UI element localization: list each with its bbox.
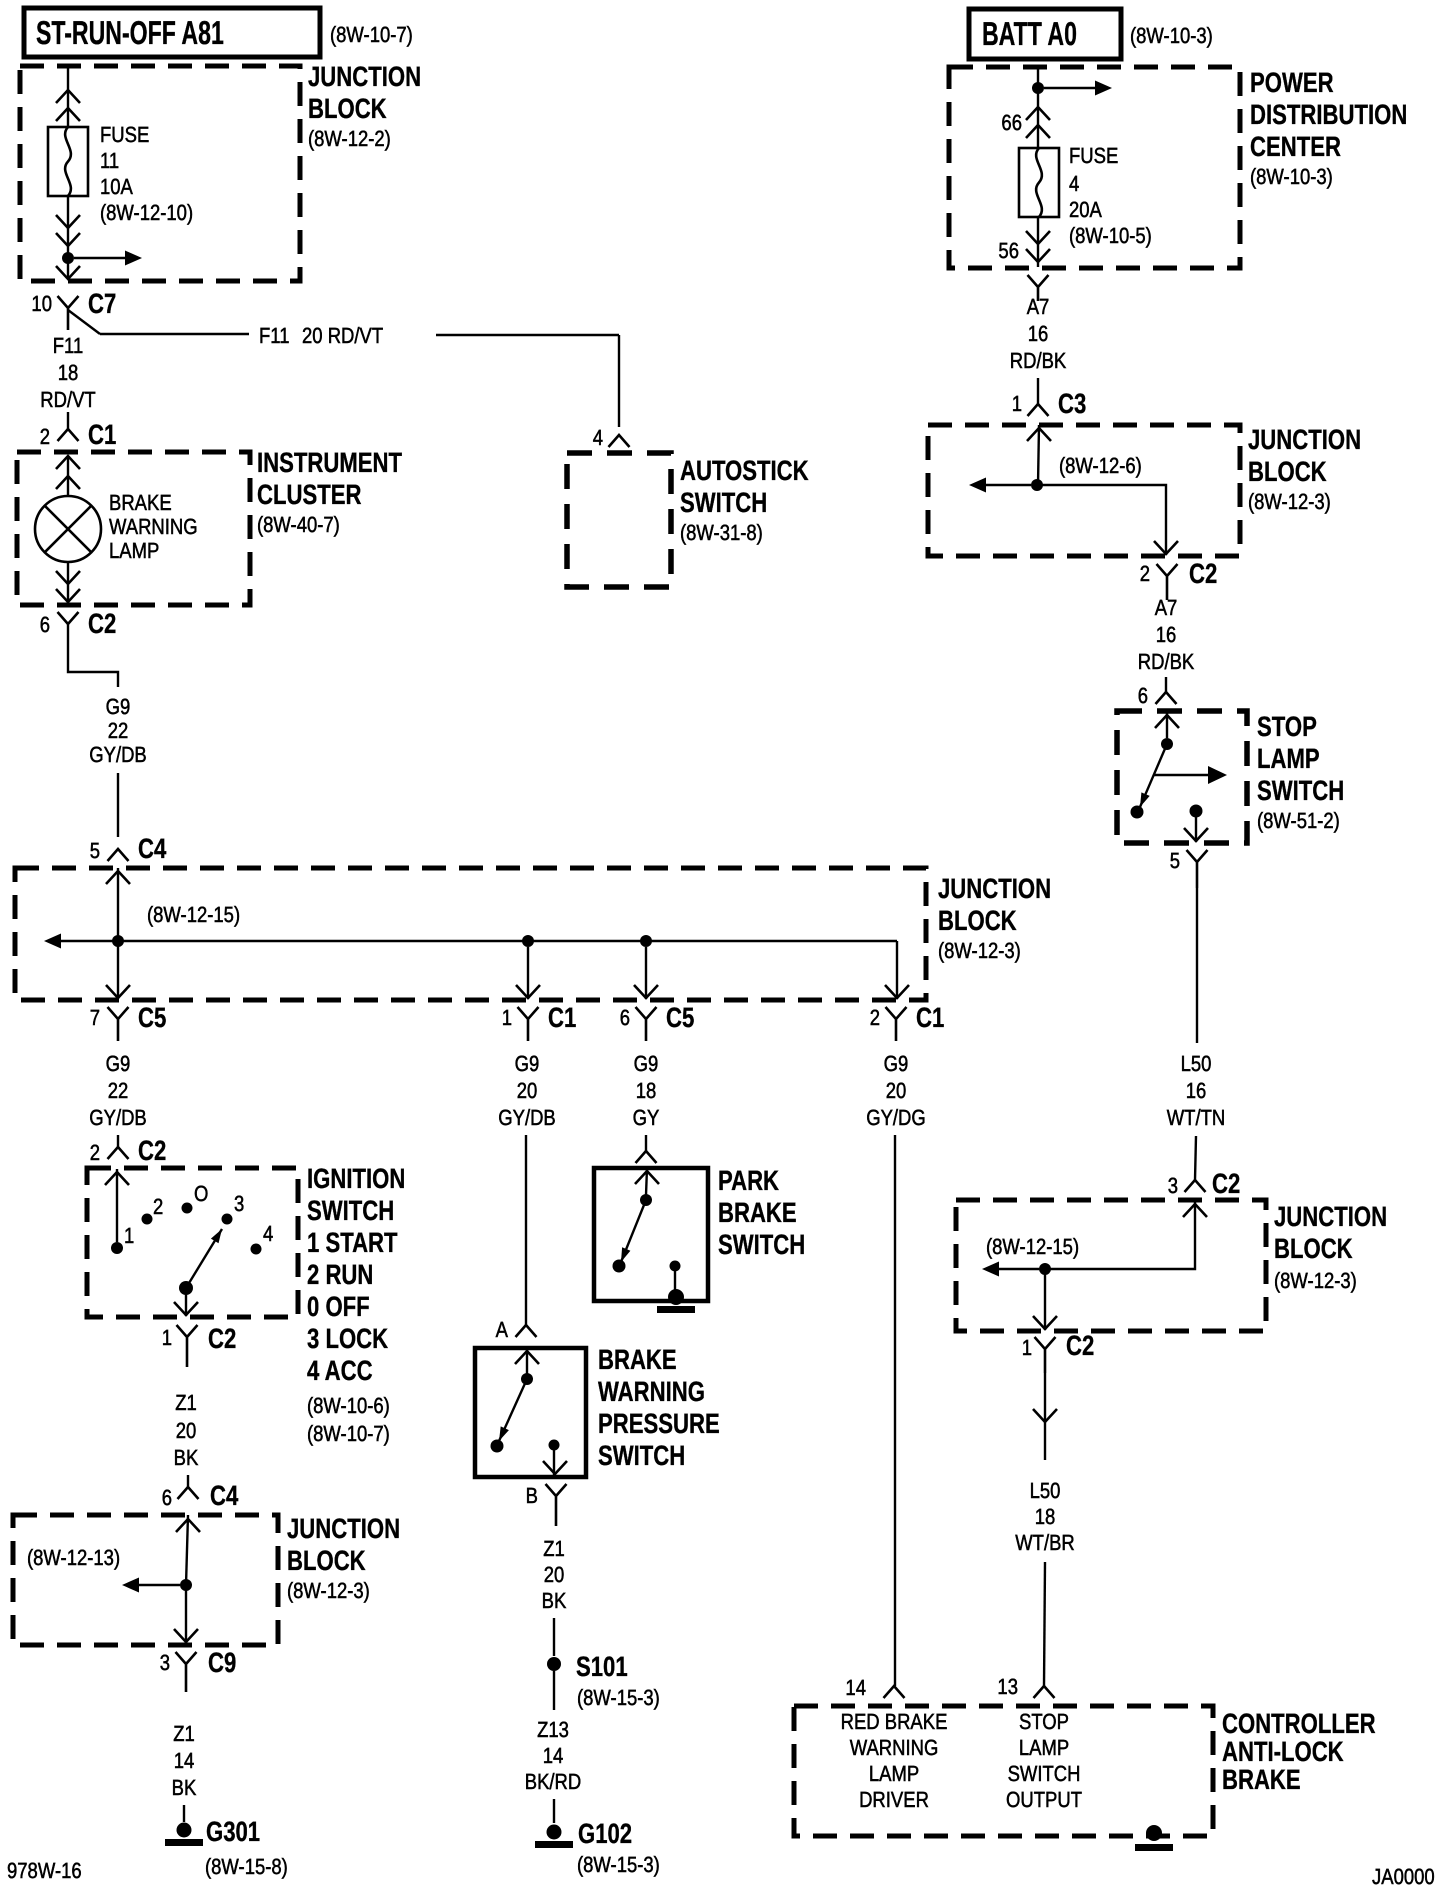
svg-text:WT/TN: WT/TN <box>1167 1105 1226 1130</box>
wire above C3 <box>1037 378 1039 404</box>
wire below fuse 11 <box>67 196 69 279</box>
svg-text:INSTRUMENT: INSTRUMENT <box>257 447 402 478</box>
svg-text:F11: F11 <box>259 323 289 348</box>
svg-text:G9: G9 <box>634 1051 659 1076</box>
svg-text:A: A <box>496 1317 509 1342</box>
wire above S101 <box>553 1618 555 1656</box>
svg-text:F11: F11 <box>53 333 83 358</box>
svg-text:4 ACC: 4 ACC <box>307 1355 373 1386</box>
svg-text:BRAKE: BRAKE <box>598 1344 677 1375</box>
svg-text:STOP: STOP <box>1019 1709 1069 1734</box>
svg-text:BLOCK: BLOCK <box>1248 456 1327 487</box>
svg-text:(8W-31-8): (8W-31-8) <box>680 520 763 545</box>
svg-text:22: 22 <box>108 1078 129 1103</box>
svg-text:(8W-12-3): (8W-12-3) <box>1274 1268 1357 1293</box>
svg-text:WT/BR: WT/BR <box>1015 1530 1075 1555</box>
svg-text:C4: C4 <box>210 1480 239 1511</box>
connector C2 pin 2 ignition <box>108 1147 129 1159</box>
svg-text:(8W-15-3): (8W-15-3) <box>577 1685 660 1710</box>
svg-text:16: 16 <box>1186 1078 1207 1103</box>
entry chevron J4 <box>1027 428 1051 441</box>
title box BATT A0 <box>969 9 1121 59</box>
park brake ground wire <box>674 1271 676 1293</box>
ignition rotor arm <box>179 1281 193 1295</box>
connector B <box>546 1484 567 1526</box>
wire col2 down <box>525 1135 527 1325</box>
svg-text:5: 5 <box>1170 848 1180 873</box>
wire below fuse 4 <box>1037 217 1039 267</box>
entry chevron park brake <box>635 1171 659 1184</box>
ignition contact 2 <box>142 1214 153 1225</box>
junction block J5 (8W-12-15) box <box>956 1200 1266 1331</box>
svg-text:20: 20 <box>886 1078 907 1103</box>
svg-text:13: 13 <box>997 1674 1018 1699</box>
svg-text:WARNING: WARNING <box>598 1376 705 1407</box>
svg-text:B: B <box>526 1483 538 1508</box>
arrow tap left J3 <box>138 1584 180 1586</box>
bus right corner drop <box>896 941 898 999</box>
svg-text:3: 3 <box>160 1650 170 1675</box>
svg-text:22: 22 <box>108 718 129 743</box>
svg-text:O: O <box>194 1181 208 1206</box>
connector C2 pin 1 ignition <box>177 1325 198 1367</box>
brake warning lamp <box>35 496 101 562</box>
svg-text:(8W-12-3): (8W-12-3) <box>287 1578 370 1603</box>
svg-text:GY/DB: GY/DB <box>89 1105 147 1130</box>
svg-text:66: 66 <box>1001 110 1022 135</box>
svg-text:SWITCH: SWITCH <box>1008 1761 1081 1786</box>
svg-text:STOP: STOP <box>1257 711 1317 742</box>
bwps switch arm <box>499 1379 527 1441</box>
svg-text:6: 6 <box>40 612 50 637</box>
bus drop wire 1 <box>117 941 119 999</box>
wire down J5 <box>1044 1269 1046 1330</box>
arrow tap right pdc <box>1044 87 1096 89</box>
wire col4 down <box>894 1135 896 1686</box>
svg-text:SWITCH: SWITCH <box>1257 775 1344 806</box>
wire right J4 <box>1037 485 1166 555</box>
svg-text:6: 6 <box>1138 683 1148 708</box>
svg-text:C7: C7 <box>88 288 116 319</box>
wire jog from C2 <box>68 624 118 687</box>
connector pin 6 stop lamp <box>1156 692 1177 704</box>
wire to lamp <box>67 456 69 496</box>
svg-text:2: 2 <box>40 424 50 449</box>
svg-text:(8W-10-3): (8W-10-3) <box>1130 23 1213 48</box>
arrow tap right J1 <box>74 257 126 259</box>
wire into fuse 11 <box>67 66 69 127</box>
connector pin 4 autostick <box>609 435 630 447</box>
connector C2 pin 2 right <box>1157 564 1178 600</box>
svg-text:CLUSTER: CLUSTER <box>257 479 361 510</box>
node pdc <box>1032 82 1044 94</box>
wire above G102 <box>553 1799 555 1823</box>
svg-text:L50: L50 <box>1030 1478 1061 1503</box>
connector C2 pin 6 <box>58 612 79 624</box>
wire below lamp <box>67 562 69 601</box>
svg-text:10: 10 <box>31 291 52 316</box>
svg-text:14: 14 <box>845 1675 866 1700</box>
svg-text:LAMP: LAMP <box>869 1761 919 1786</box>
svg-text:7: 7 <box>90 1005 100 1030</box>
svg-text:C2: C2 <box>138 1135 166 1166</box>
bus drop wire 3 <box>645 947 647 999</box>
connector C2 pin 1 right <box>1035 1337 1056 1373</box>
wire above C2 J5 <box>1195 1136 1196 1180</box>
entry chevrons instrument cluster <box>56 456 80 469</box>
direction chevron L50 <box>1033 1409 1057 1422</box>
controller internal ground <box>1146 1825 1162 1841</box>
wire into J4 node <box>1038 425 1039 485</box>
svg-text:C3: C3 <box>1058 388 1086 419</box>
svg-text:JUNCTION: JUNCTION <box>938 873 1051 904</box>
svg-text:(8W-15-3): (8W-15-3) <box>577 1852 660 1877</box>
chevrons up fuse 11 <box>56 90 80 103</box>
svg-text:3: 3 <box>234 1191 244 1216</box>
svg-text:Z13: Z13 <box>537 1717 569 1742</box>
stop lamp actuation arrow <box>1154 774 1209 776</box>
autostick switch box <box>567 453 671 587</box>
svg-text:BK/RD: BK/RD <box>525 1769 581 1794</box>
stop lamp contact left <box>1131 806 1144 819</box>
connector A <box>516 1325 537 1337</box>
svg-text:LAMP: LAMP <box>1019 1735 1069 1760</box>
node at fuse output <box>62 252 74 264</box>
exit chevron ignition <box>174 1302 198 1315</box>
chevrons down fuse 4 <box>1026 231 1050 244</box>
connector C1 pin 2 <box>886 1007 907 1041</box>
svg-text:C9: C9 <box>208 1647 236 1678</box>
ground G301 <box>177 1823 192 1838</box>
park brake internal ground <box>668 1289 684 1305</box>
connector C4 pin 5 <box>108 849 129 861</box>
connector C9 pin 3 <box>176 1652 197 1692</box>
exit chevron bwps <box>543 1461 567 1474</box>
stop lamp switch box <box>1117 711 1247 843</box>
svg-text:1: 1 <box>1012 391 1022 416</box>
connector C1 pin 2 <box>58 429 79 441</box>
svg-text:18: 18 <box>58 360 79 385</box>
svg-text:SWITCH: SWITCH <box>307 1195 394 1226</box>
svg-text:(8W-10-3): (8W-10-3) <box>1250 164 1333 189</box>
connector park brake <box>636 1151 657 1163</box>
svg-text:4: 4 <box>1069 171 1079 196</box>
svg-text:C4: C4 <box>138 833 167 864</box>
connector C3 pin 1 <box>1028 404 1049 416</box>
svg-text:L50: L50 <box>1181 1051 1212 1076</box>
wire above pin 13 <box>1044 1562 1045 1686</box>
connector C1 pin 1 <box>518 1007 539 1041</box>
svg-text:C2: C2 <box>208 1323 236 1354</box>
svg-text:20: 20 <box>517 1078 538 1103</box>
svg-text:BLOCK: BLOCK <box>287 1545 366 1576</box>
svg-text:SWITCH: SWITCH <box>718 1229 805 1260</box>
connector C4 pin 6 <box>178 1487 199 1499</box>
svg-text:DRIVER: DRIVER <box>859 1787 929 1812</box>
wire F11 down to autostick <box>618 335 620 427</box>
svg-text:GY/DG: GY/DG <box>866 1105 926 1130</box>
svg-text:OUTPUT: OUTPUT <box>1006 1787 1082 1812</box>
wire above connector C1 <box>67 412 69 429</box>
svg-text:BRAKE: BRAKE <box>1222 1764 1301 1795</box>
bus node 3 <box>640 935 652 947</box>
stop lamp wire down <box>1195 816 1197 842</box>
connector below pdc <box>1028 275 1049 301</box>
wire F11 tap diagonal <box>68 310 100 334</box>
arrow tap left J4 <box>985 484 1031 486</box>
svg-text:JUNCTION: JUNCTION <box>1248 424 1361 455</box>
svg-text:RD/VT: RD/VT <box>40 387 95 412</box>
svg-text:1: 1 <box>1022 1335 1032 1360</box>
svg-text:20: 20 <box>176 1418 197 1443</box>
ignition contact 1 <box>111 1242 123 1254</box>
svg-text:(8W-12-6): (8W-12-6) <box>1059 453 1142 478</box>
wire F11 horizontal right <box>436 334 619 336</box>
brake warning pressure switch box <box>475 1348 586 1477</box>
fuse 4 <box>1019 148 1059 217</box>
svg-text:C2: C2 <box>1066 1330 1094 1361</box>
splice S101 <box>547 1657 561 1671</box>
svg-text:GY: GY <box>633 1105 660 1130</box>
svg-text:0 OFF: 0 OFF <box>307 1291 370 1322</box>
park brake switch arm <box>621 1200 646 1262</box>
svg-text:RED BRAKE: RED BRAKE <box>841 1709 948 1734</box>
svg-text:3: 3 <box>1168 1173 1178 1198</box>
ignition contact 3 <box>222 1214 233 1225</box>
wire into bus <box>117 868 119 941</box>
svg-text:GY/DB: GY/DB <box>89 742 147 767</box>
svg-text:JUNCTION: JUNCTION <box>1274 1201 1387 1232</box>
exit chevron drop 1 <box>106 985 130 998</box>
arrow tap left J5 <box>998 1268 1039 1270</box>
exit chevrons instrument cluster <box>56 571 80 584</box>
park brake contact right <box>670 1261 681 1272</box>
svg-text:14: 14 <box>543 1743 564 1768</box>
svg-text:A7: A7 <box>1027 294 1050 319</box>
connector C2 pin 3 <box>1185 1180 1206 1192</box>
svg-text:2: 2 <box>90 1140 100 1165</box>
title box ST-RUN-OFF A81 <box>24 8 320 57</box>
bus drop wire 2 <box>527 947 529 999</box>
connector C7 pin 10 <box>58 296 79 330</box>
entry chevron stop lamp <box>1155 715 1179 728</box>
svg-text:G9: G9 <box>515 1051 540 1076</box>
bwps wire to contact <box>526 1348 528 1374</box>
entry chevron J2 <box>106 871 130 884</box>
svg-text:BLOCK: BLOCK <box>308 93 387 124</box>
bwps contact right <box>549 1440 560 1451</box>
svg-text:(8W-12-15): (8W-12-15) <box>986 1234 1079 1259</box>
park brake wire to contact <box>646 1168 647 1195</box>
chevrons up fuse 4 <box>1026 107 1050 120</box>
svg-text:1: 1 <box>162 1325 172 1350</box>
svg-text:BRAKE: BRAKE <box>718 1197 797 1228</box>
entry chevron ignition <box>105 1172 129 1185</box>
svg-text:AUTOSTICK: AUTOSTICK <box>680 455 809 486</box>
node J3 <box>180 1579 192 1591</box>
svg-text:(8W-12-15): (8W-12-15) <box>147 902 240 927</box>
svg-text:3 LOCK: 3 LOCK <box>307 1323 388 1354</box>
stop lamp contact top <box>1161 738 1173 750</box>
wire F11 horizontal left <box>100 333 249 335</box>
svg-text:C1: C1 <box>916 1002 944 1033</box>
svg-text:14: 14 <box>174 1748 195 1773</box>
svg-text:(8W-12-3): (8W-12-3) <box>1248 489 1331 514</box>
svg-text:S101: S101 <box>576 1651 628 1682</box>
wire L50 down <box>1196 888 1198 1043</box>
svg-text:(8W-10-7): (8W-10-7) <box>307 1421 390 1446</box>
connector pin 5 <box>1187 850 1208 888</box>
exit chevron J5 <box>1033 1316 1057 1329</box>
svg-text:G102: G102 <box>578 1818 632 1849</box>
svg-text:CENTER: CENTER <box>1250 131 1341 162</box>
svg-text:Z1: Z1 <box>173 1721 195 1746</box>
svg-text:1 START: 1 START <box>307 1227 398 1258</box>
svg-text:2: 2 <box>870 1005 880 1030</box>
svg-text:BRAKE: BRAKE <box>109 490 172 515</box>
svg-text:ANTI-LOCK: ANTI-LOCK <box>1222 1736 1344 1767</box>
wire above ignition C2 <box>117 1135 119 1147</box>
svg-text:C2: C2 <box>1212 1168 1240 1199</box>
fuse 11 <box>48 127 88 196</box>
node J4 <box>1031 479 1043 491</box>
wire col3 down <box>645 1135 647 1151</box>
svg-text:C5: C5 <box>138 1002 166 1033</box>
connector C5 pin 7 <box>108 1007 129 1041</box>
ground G102 <box>547 1825 562 1840</box>
svg-text:BATT A0: BATT A0 <box>982 15 1077 52</box>
svg-text:BLOCK: BLOCK <box>938 905 1017 936</box>
svg-text:(8W-12-13): (8W-12-13) <box>27 1545 120 1570</box>
bwps contact top <box>521 1373 533 1385</box>
svg-text:JA0000: JA0000 <box>1372 1864 1435 1889</box>
connector C5 pin 6 <box>636 1007 657 1041</box>
bus line <box>58 940 897 942</box>
svg-text:RD/BK: RD/BK <box>1138 649 1195 674</box>
junction block J1 (8W-12-2) box <box>20 66 300 281</box>
svg-text:16: 16 <box>1156 622 1177 647</box>
bwps contact left <box>491 1440 504 1453</box>
svg-text:18: 18 <box>1035 1504 1056 1529</box>
svg-text:BK: BK <box>542 1588 567 1613</box>
bus node 2 <box>522 935 534 947</box>
svg-text:(8W-51-2): (8W-51-2) <box>1257 808 1340 833</box>
entry chevron J3 <box>176 1519 200 1532</box>
svg-text:10A: 10A <box>100 174 133 199</box>
wire down J3 <box>185 1585 187 1643</box>
exit chevron drop 4 <box>885 985 909 998</box>
wire below S101 <box>553 1671 555 1710</box>
exit chevron drop 2 <box>516 985 540 998</box>
junction block J4 (8W-12-6) box <box>928 425 1240 556</box>
svg-text:1: 1 <box>124 1223 134 1248</box>
svg-text:(8W-10-7): (8W-10-7) <box>330 22 413 47</box>
wire to node J3 <box>186 1515 188 1585</box>
svg-text:1: 1 <box>502 1005 512 1030</box>
svg-text:C5: C5 <box>666 1002 694 1033</box>
exit chevron drop 3 <box>634 985 658 998</box>
connector pin 14 <box>884 1686 905 1698</box>
stop lamp wire to contact <box>1166 711 1168 738</box>
svg-text:(8W-10-5): (8W-10-5) <box>1069 223 1152 248</box>
exit chevron J1 <box>56 266 80 279</box>
svg-text:18: 18 <box>636 1078 657 1103</box>
ignition switch box <box>87 1168 298 1317</box>
ignition contact 0 <box>182 1203 193 1214</box>
svg-text:Z1: Z1 <box>543 1536 565 1561</box>
svg-text:(8W-15-8): (8W-15-8) <box>205 1854 288 1879</box>
svg-text:(8W-40-7): (8W-40-7) <box>257 512 340 537</box>
park brake contact left <box>613 1260 626 1273</box>
svg-text:BK: BK <box>172 1775 197 1800</box>
bus arrow left <box>59 940 61 942</box>
ignition rotor wire down <box>185 1293 187 1316</box>
svg-text:JUNCTION: JUNCTION <box>287 1513 400 1544</box>
junction block J2 (8W-12-15) box <box>15 868 926 1000</box>
svg-text:IGNITION: IGNITION <box>307 1163 405 1194</box>
chevrons down below fuse <box>56 215 80 228</box>
exit chevron J3 <box>174 1629 198 1642</box>
svg-text:(8W-12-10): (8W-12-10) <box>100 200 193 225</box>
svg-text:C1: C1 <box>88 419 116 450</box>
entry chevron bwps <box>515 1351 539 1364</box>
svg-text:56: 56 <box>998 238 1019 263</box>
svg-text:WARNING: WARNING <box>109 514 198 539</box>
svg-text:C1: C1 <box>548 1002 576 1033</box>
wire to contact 1 <box>116 1169 118 1242</box>
svg-text:Z1: Z1 <box>175 1390 197 1415</box>
entry chevron J5 <box>1183 1204 1207 1217</box>
svg-text:20 RD/VT: 20 RD/VT <box>302 323 383 348</box>
svg-text:G9: G9 <box>106 1051 131 1076</box>
wire below C2 J5 <box>1044 1373 1046 1460</box>
svg-text:C2: C2 <box>88 608 116 639</box>
park brake contact top <box>640 1194 652 1206</box>
svg-text:G9: G9 <box>884 1051 909 1076</box>
svg-text:DISTRIBUTION: DISTRIBUTION <box>1250 99 1407 130</box>
svg-text:11: 11 <box>100 148 119 173</box>
svg-text:G301: G301 <box>206 1816 260 1847</box>
instrument cluster box <box>17 452 250 605</box>
svg-text:2 RUN: 2 RUN <box>307 1259 373 1290</box>
svg-text:978W-16: 978W-16 <box>7 1858 82 1883</box>
svg-text:WARNING: WARNING <box>850 1735 939 1760</box>
svg-text:(8W-12-2): (8W-12-2) <box>308 126 391 151</box>
svg-text:A7: A7 <box>1155 595 1178 620</box>
wire above stop lamp switch <box>1165 677 1167 692</box>
power distribution center box <box>949 67 1240 268</box>
svg-text:LAMP: LAMP <box>1257 743 1320 774</box>
svg-text:LAMP: LAMP <box>109 538 159 563</box>
svg-text:BK: BK <box>174 1445 199 1470</box>
park brake switch box <box>594 1168 708 1301</box>
svg-text:6: 6 <box>620 1005 630 1030</box>
svg-text:GY/DB: GY/DB <box>498 1105 556 1130</box>
svg-text:(8W-10-6): (8W-10-6) <box>307 1393 390 1418</box>
svg-text:G9: G9 <box>106 694 131 719</box>
svg-text:JUNCTION: JUNCTION <box>308 61 421 92</box>
svg-text:C2: C2 <box>1189 558 1217 589</box>
svg-text:6: 6 <box>162 1485 172 1510</box>
exit chevron stop lamp <box>1184 828 1208 841</box>
svg-text:ST-RUN-OFF A81: ST-RUN-OFF A81 <box>36 14 224 51</box>
svg-text:POWER: POWER <box>1250 67 1334 98</box>
controller anti-lock brake box <box>794 1706 1213 1836</box>
svg-text:4: 4 <box>263 1221 273 1246</box>
svg-text:RD/BK: RD/BK <box>1010 348 1067 373</box>
wire above G301 <box>183 1805 185 1822</box>
ignition contact 4 <box>251 1244 262 1255</box>
